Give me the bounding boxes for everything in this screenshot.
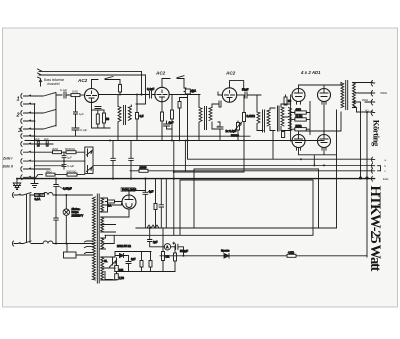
svg-text:0,1µF: 0,1µF <box>80 128 87 132</box>
wire filter vertical D <box>173 141 175 236</box>
wire rect cathode out <box>106 191 145 218</box>
wire heater taps to L4 <box>101 235 114 249</box>
diode D1 <box>224 254 229 259</box>
capacitor C3 plates <box>72 128 79 136</box>
wire grid leak <box>68 95 76 112</box>
capacitor C11 <box>164 121 173 129</box>
resistor R5 50000 <box>67 173 77 176</box>
resistor R16 <box>287 254 296 257</box>
wire AD1 cathode verticals <box>299 102 337 166</box>
svg-text:4µF: 4µF <box>149 190 154 194</box>
resistor R6 cathode <box>96 114 99 124</box>
capacitor C14 2x01 <box>217 122 223 140</box>
coil L1 <box>34 193 90 196</box>
wire AD1 grids <box>286 83 341 131</box>
svg-text:0,5: 0,5 <box>90 168 94 172</box>
svg-text:Körting: Körting <box>372 120 382 147</box>
interstage transformer T2 <box>199 95 218 141</box>
bus loop L4 <box>105 180 313 235</box>
svg-text:DR: DR <box>166 255 170 259</box>
resistor R22 <box>149 261 152 268</box>
svg-text:7,50: 7,50 <box>119 277 124 280</box>
right terminal b <box>371 163 374 168</box>
wire AD1 rails <box>291 95 310 141</box>
resistor R23 <box>115 266 119 272</box>
svg-text:2µF: 2µF <box>35 137 40 141</box>
bus loop L1 <box>194 169 319 228</box>
mains terminal m1 <box>12 193 20 198</box>
rectifier tube V8 <box>122 195 136 209</box>
resistor R14c <box>282 132 285 138</box>
resistor R17 <box>162 252 165 261</box>
potentiometer P2 <box>87 166 93 174</box>
voltage selector box <box>64 252 77 258</box>
resistor R7 <box>103 113 106 123</box>
capacitor C6 <box>62 152 66 161</box>
resistor R24 <box>115 274 119 280</box>
phase splitter winding T4 <box>278 104 292 131</box>
svg-text:150Ω: 150Ω <box>362 98 369 102</box>
resistor R11 <box>243 113 246 122</box>
svg-text:4µF: 4µF <box>169 121 174 125</box>
svg-text:0,5: 0,5 <box>140 114 144 118</box>
wire stage2 to bus c <box>184 141 186 171</box>
mains terminal m2 <box>12 241 20 246</box>
interstage transformer T1 <box>118 95 131 141</box>
svg-text:HTKW-25 Watt: HTKW-25 Watt <box>367 186 383 272</box>
svg-text:GL: GL <box>104 259 108 263</box>
lamp pilot <box>63 195 69 244</box>
wire left bus vertical <box>34 104 36 182</box>
svg-text:A: A <box>166 245 168 249</box>
svg-text:4 x 2 AD1: 4 x 2 AD1 <box>300 70 321 75</box>
svg-text:AC2: AC2 <box>77 78 88 83</box>
meter M1 <box>164 244 175 250</box>
capacitor C10 5uF <box>184 88 190 94</box>
svg-text:Zelle I: Zelle I <box>2 157 12 161</box>
svg-text:3: 3 <box>18 128 21 134</box>
resistor R10 <box>171 110 174 119</box>
wire HV taps <box>101 198 122 212</box>
capacitor C9 coupling <box>144 92 155 99</box>
right terminal a <box>371 157 374 162</box>
bus heater line 2 <box>30 135 250 137</box>
transformer TR secondary HV <box>101 198 104 212</box>
wire U feedback <box>174 141 244 173</box>
resistor R2 2M <box>53 151 62 154</box>
svg-text:Zelle II: Zelle II <box>2 164 13 168</box>
svg-text:GA: GA <box>108 204 112 208</box>
potentiometer box <box>85 147 93 174</box>
bus line b <box>93 164 373 166</box>
speaker terminal t2 <box>371 91 375 97</box>
svg-text:220/110 V: 220/110 V <box>72 213 84 217</box>
svg-text:1µF: 1µF <box>67 156 72 160</box>
capacitor C21 <box>126 256 131 272</box>
svg-text:1µF: 1µF <box>79 112 84 116</box>
tube V3 AC2 <box>222 88 236 102</box>
wire to driver <box>252 95 261 112</box>
svg-text:50000Ω: 50000Ω <box>67 169 77 173</box>
transformer TR secondary heater2 <box>101 257 104 280</box>
wire R21 <box>141 252 143 272</box>
tube V2 AC2 <box>155 87 169 101</box>
transformer TR secondary heater1 <box>101 238 104 249</box>
svg-text:800Ω: 800Ω <box>381 91 388 95</box>
wire V2 anode to C12 <box>176 94 200 96</box>
junction dots bus <box>16 93 368 256</box>
right terminal c <box>371 168 374 173</box>
svg-text:2: 2 <box>16 113 20 119</box>
bus line a <box>188 131 373 159</box>
svg-text:0,1: 0,1 <box>90 150 94 154</box>
switch blade S1a <box>44 93 56 96</box>
capacitor C8 <box>95 107 101 109</box>
wire sec tap down <box>361 103 368 257</box>
resistor R8 <box>136 113 139 120</box>
switch blade S1c <box>44 126 56 129</box>
wire switch common vertical <box>56 93 62 126</box>
capacitor C22 bypass <box>148 228 165 247</box>
transformer TR primary <box>92 197 95 280</box>
resistor R9 <box>178 102 181 109</box>
tube V7 AD1 <box>318 135 331 151</box>
wire filter vertical C <box>159 179 166 228</box>
svg-text:50000Ω: 50000Ω <box>65 147 75 151</box>
potentiometer P1 <box>87 149 93 157</box>
tube V6 AD1 <box>292 135 305 151</box>
resistor R1 1M <box>71 94 80 97</box>
svg-text:0,1µF: 0,1µF <box>60 88 67 92</box>
driver transformer T3 <box>257 108 275 132</box>
wire V3 top <box>230 81 244 88</box>
svg-text:0,1: 0,1 <box>192 89 196 93</box>
resistor R12 <box>284 97 287 105</box>
wire secondary taps <box>353 83 373 113</box>
svg-text:0,05µF: 0,05µF <box>63 187 72 191</box>
svg-text:1: 1 <box>17 96 20 102</box>
ground symbol 2 <box>34 181 36 183</box>
wire row10 <box>30 168 50 170</box>
wire V2 cathode components <box>161 102 163 112</box>
ground bus full width <box>18 178 375 180</box>
capacitor C7 <box>62 161 66 169</box>
svg-text:200Ω 50 kΩ: 200Ω 50 kΩ <box>117 244 131 248</box>
input terminals column <box>21 94 31 180</box>
potentiometer P3 <box>237 123 240 131</box>
wire V3 anode right <box>237 94 243 96</box>
svg-text:1µF: 1µF <box>153 240 158 244</box>
resistor R4 1M <box>46 173 55 176</box>
capacitor C5 2uF <box>46 141 48 146</box>
wire row11 <box>30 175 85 178</box>
svg-text:Sperre: Sperre <box>221 249 230 253</box>
wire even rows to bus <box>30 104 35 136</box>
capacitor C16 heater <box>111 141 116 179</box>
svg-text:1µF: 1µF <box>131 257 136 261</box>
wire primary taps <box>84 195 92 254</box>
wire V3 grid <box>218 92 222 95</box>
transformer TR secondary mid <box>101 217 104 232</box>
svg-text:500µF: 500µF <box>180 249 188 253</box>
coil L2 <box>34 241 93 244</box>
bus line c <box>130 170 373 172</box>
wire row7 <box>30 144 53 146</box>
wire heater taps mid <box>101 217 116 232</box>
resistor R13 bias <box>295 111 307 114</box>
svg-text:0,3MΩ: 0,3MΩ <box>247 114 255 118</box>
right terminal erde <box>371 176 374 181</box>
resistor R9b cathode <box>161 112 164 121</box>
wire rect anodes <box>106 201 123 203</box>
capacitor C13 <box>218 101 221 126</box>
capacitor C2 <box>74 112 78 128</box>
wire stage1 anode top loop <box>92 77 121 89</box>
diode D2 <box>115 254 128 258</box>
tube V4 AD1 <box>292 89 305 105</box>
svg-text:AC2: AC2 <box>225 71 236 76</box>
output transformer T5 <box>341 81 355 110</box>
wire top bus double line <box>38 69 146 104</box>
junction dot sec <box>359 177 361 179</box>
ground symbol left <box>13 179 21 189</box>
bottom bus <box>160 255 367 257</box>
wire R1 to tube <box>80 94 85 96</box>
resistor R19 anode <box>108 200 115 203</box>
bus line 228 <box>136 110 337 228</box>
svg-text:50000: 50000 <box>231 134 239 138</box>
transformer TR core <box>97 194 99 283</box>
svg-text:2µF: 2µF <box>44 137 49 141</box>
svg-text:Erde: Erde <box>383 177 389 181</box>
bus heater line <box>25 140 324 142</box>
choke DR1 <box>136 225 159 228</box>
svg-text:4,5Ω: 4,5Ω <box>288 250 294 254</box>
ground symbol input <box>31 182 38 188</box>
capacitor C15 coupling <box>245 92 257 98</box>
wire bottom taps <box>101 257 115 280</box>
speaker terminal t1 <box>371 81 375 87</box>
wire V2 grid left <box>154 94 156 96</box>
switch blade S1b <box>44 110 56 113</box>
switch blade mains2 <box>20 241 34 244</box>
ground symbol mains <box>14 183 21 190</box>
svg-text:1MΩ: 1MΩ <box>72 90 78 94</box>
resistor R20 <box>154 204 157 210</box>
switch linkage <box>27 194 31 243</box>
resistor R7b anode feed <box>119 85 122 93</box>
wire cluster bottom <box>115 272 175 281</box>
capacitor C19 <box>143 179 148 228</box>
wire cluster top <box>115 252 152 258</box>
svg-text:AC2: AC2 <box>155 71 166 76</box>
svg-text:50: 50 <box>106 117 110 121</box>
wire V1 cathode down <box>92 103 111 129</box>
svg-text:100: 100 <box>119 269 124 272</box>
svg-text:0,1A: 0,1A <box>35 197 41 201</box>
wire row9 <box>30 160 85 162</box>
wire V1 anode right <box>99 94 145 96</box>
tube V5 AD1 <box>318 89 331 105</box>
speaker terminal t3 <box>365 100 375 106</box>
svg-text:50nF: 50nF <box>242 88 249 92</box>
capacitor C20 <box>173 242 184 256</box>
junction dot erde <box>366 177 368 179</box>
resistor R14 bias <box>295 128 307 131</box>
label C18 leader <box>58 186 62 189</box>
wire AD1 anodes bottom <box>299 112 342 135</box>
capacitor C18 mains <box>54 179 58 244</box>
link bracket b-c <box>378 166 381 171</box>
node arrow bass note <box>39 80 41 87</box>
wire R22 <box>150 252 152 272</box>
wire odd rows to switches <box>30 96 43 129</box>
svg-text:2MΩ: 2MΩ <box>52 147 58 151</box>
resistor R13b bias <box>295 118 307 121</box>
speaker terminal t4 <box>371 110 375 116</box>
capacitor C1 0.1uF <box>64 92 71 98</box>
resistor R18 <box>174 253 177 261</box>
resistor R3 50000 <box>66 151 76 154</box>
wire stage2 anode top loop <box>162 76 184 88</box>
fuse F1 <box>35 194 40 197</box>
svg-text:0,1µF: 0,1µF <box>67 164 74 168</box>
wire row8 <box>30 151 85 153</box>
tube V1 AC2 <box>85 89 99 103</box>
svg-text:1MΩ: 1MΩ <box>46 169 52 173</box>
potentiometer P4 <box>105 257 117 280</box>
svg-text:0,1µF: 0,1µF <box>147 87 154 91</box>
resistor R21 <box>140 261 143 268</box>
capacitor C4 2uF <box>37 141 39 147</box>
svg-text:drosseln!: drosseln! <box>47 82 60 86</box>
wire filter vertical B <box>155 179 157 228</box>
capacitor C17 heater <box>129 141 134 179</box>
resistor R15 on bus <box>139 169 148 172</box>
switch blade mains1 <box>20 193 34 196</box>
svg-text:4Ω: 4Ω <box>365 109 369 113</box>
